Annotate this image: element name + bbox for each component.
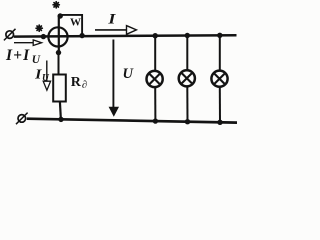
svg-text:∂: ∂	[82, 80, 87, 91]
svg-text:R: R	[71, 75, 82, 90]
svg-text:I: I	[107, 12, 117, 28]
svg-text:U: U	[32, 54, 41, 66]
svg-text:U: U	[42, 74, 50, 84]
svg-text:I+I: I+I	[5, 47, 30, 64]
svg-text:W: W	[70, 16, 81, 28]
svg-text:U: U	[123, 66, 135, 82]
